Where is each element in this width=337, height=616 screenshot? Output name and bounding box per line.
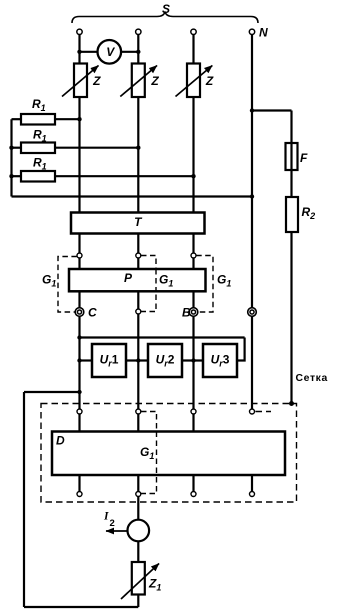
wire D2 bottom stub bbox=[137, 475, 139, 492]
wire col3 B down bbox=[192, 316, 194, 409]
wire col3 Z to T bbox=[192, 97, 194, 213]
wire D1 stub bbox=[78, 414, 80, 432]
resistor R1 c bbox=[21, 171, 55, 182]
wire R1c left bbox=[12, 175, 22, 177]
wire col2 P to circle bbox=[137, 291, 139, 309]
svg-text:Z: Z bbox=[150, 74, 159, 88]
terminal col2 mid bbox=[136, 253, 141, 258]
impedance Z col2 bbox=[132, 64, 145, 98]
svg-text:Z: Z bbox=[92, 74, 101, 88]
wire bypass bottom bbox=[24, 606, 138, 608]
wire Ur2 to Ur3 bbox=[182, 359, 203, 361]
wire Ur mid col1 bbox=[80, 359, 93, 361]
wire D4 bottom stub bbox=[251, 475, 253, 492]
terminal col2 top bbox=[136, 29, 141, 34]
svg-text:G1: G1 bbox=[42, 273, 56, 289]
wire col2 down bbox=[137, 314, 139, 409]
svg-text:Z: Z bbox=[205, 74, 214, 88]
wire V right bbox=[121, 51, 138, 53]
node bypass col1 bbox=[77, 390, 81, 394]
wire col3 circle to P bbox=[192, 258, 194, 269]
wire col1 Z to T bbox=[78, 97, 80, 213]
wire R1b right bbox=[55, 147, 138, 149]
arrow Z col3 bbox=[176, 66, 213, 97]
wire ammeter to Z1 bbox=[137, 541, 139, 562]
svg-text:Ur2: Ur2 bbox=[156, 353, 175, 369]
wire V left bbox=[80, 51, 98, 53]
wire col2 to ammeter bbox=[137, 497, 139, 520]
terminal D3 top bbox=[191, 409, 196, 414]
node rail c bbox=[9, 174, 13, 178]
svg-text:N: N bbox=[259, 25, 268, 39]
wire F branch down bbox=[290, 111, 292, 144]
wire col1 C down bbox=[78, 316, 80, 409]
wire col1 T to circle bbox=[78, 234, 80, 254]
wire col3 terminal to Z bbox=[192, 35, 194, 64]
terminal D3 bottom bbox=[191, 492, 196, 497]
wire Ur1 to Ur2 bbox=[126, 359, 148, 361]
wire Ur top link bbox=[80, 336, 245, 338]
wire left rail bbox=[10, 119, 12, 196]
terminal col4 outer bbox=[248, 308, 257, 317]
arrow Z1 bbox=[121, 564, 159, 600]
svg-text:Сетка: Сетка bbox=[296, 373, 328, 384]
node bottom col4 bbox=[250, 194, 254, 198]
svg-text:B: B bbox=[182, 306, 191, 320]
arrow Z col1 bbox=[62, 66, 99, 97]
terminal col1 mid bbox=[77, 253, 82, 258]
impedance Z col1 bbox=[74, 64, 87, 98]
link G1 a dashed bbox=[58, 257, 77, 313]
box Ur1 bbox=[92, 344, 126, 377]
voltmeter U1 bbox=[98, 40, 122, 64]
wire R2 down to grid bbox=[290, 232, 292, 403]
box Ur3 bbox=[203, 344, 237, 377]
wire F to R2 bbox=[290, 170, 292, 197]
wire R1c right bbox=[55, 175, 194, 177]
svg-text:S: S bbox=[162, 2, 170, 16]
wire R1a left bbox=[12, 118, 22, 120]
terminal col4 inner bbox=[250, 310, 254, 314]
terminal col2 small bbox=[136, 309, 141, 314]
node R1c col3 bbox=[191, 174, 195, 178]
wire Ur bend bbox=[237, 338, 245, 361]
svg-text:G1: G1 bbox=[217, 273, 231, 289]
wire G1b over P bbox=[155, 269, 157, 291]
terminal D2 bottom bbox=[136, 492, 141, 497]
terminal B inner bbox=[191, 310, 195, 314]
fuse F bbox=[286, 143, 298, 170]
wire R1a right bbox=[55, 118, 80, 120]
wire col3 P to B bbox=[192, 291, 194, 307]
wire F branch horizontal bbox=[252, 109, 292, 111]
terminal N top bbox=[249, 29, 254, 34]
node V left bbox=[77, 50, 81, 54]
svg-text:C: C bbox=[88, 306, 97, 320]
link G1 c dashed bbox=[196, 256, 213, 313]
wire R1b left bbox=[12, 147, 22, 149]
terminal C inner bbox=[77, 310, 81, 314]
wire col1 terminal to Z bbox=[78, 35, 80, 64]
terminal col3 mid bbox=[191, 253, 196, 258]
wire bypass horizontal bbox=[24, 391, 80, 393]
wire stub mains dashed bbox=[256, 411, 272, 413]
wire col2 Z to T bbox=[137, 97, 139, 213]
node R1a col1 bbox=[77, 117, 81, 121]
terminal D1 top bbox=[77, 409, 82, 414]
wire D2 stub bbox=[137, 414, 139, 432]
wire D3 bottom stub bbox=[192, 475, 194, 492]
node grid bbox=[289, 401, 294, 406]
wire col4 down bbox=[251, 316, 253, 409]
svg-text:R2: R2 bbox=[302, 205, 316, 221]
svg-text:R1: R1 bbox=[32, 97, 46, 113]
device P box bbox=[69, 269, 206, 291]
node V right bbox=[136, 50, 140, 54]
node Ur mid col1 bbox=[77, 358, 81, 362]
resistor R1 b bbox=[21, 143, 55, 154]
node Ur top col1 bbox=[77, 335, 81, 339]
wire col2 circle to P bbox=[137, 258, 139, 269]
device D box bbox=[52, 432, 285, 476]
brace S bbox=[72, 12, 258, 24]
terminal col3 top bbox=[191, 29, 196, 34]
svg-text:Ur1: Ur1 bbox=[100, 353, 119, 369]
link G1 b dashed bbox=[141, 256, 156, 312]
svg-text:2: 2 bbox=[110, 518, 115, 529]
node R1b col2 bbox=[136, 146, 140, 150]
wire Z1 down bbox=[137, 595, 139, 608]
impedance Z1 bbox=[132, 562, 145, 595]
node Ur mid col2 bbox=[136, 358, 140, 362]
svg-text:Ur3: Ur3 bbox=[211, 353, 230, 369]
wire through fuse bbox=[290, 143, 292, 170]
svg-text:T: T bbox=[134, 215, 143, 229]
wire D3 stub bbox=[192, 414, 194, 432]
wire G1d over D bbox=[156, 432, 158, 476]
wire D1 bottom stub bbox=[78, 475, 80, 492]
box Ur2 bbox=[148, 344, 182, 377]
wire bypass rail bbox=[23, 392, 25, 607]
svg-text:R1: R1 bbox=[33, 128, 47, 144]
wire bottom R1 to col4 bbox=[12, 195, 253, 197]
terminal D4 bottom bbox=[250, 492, 255, 497]
wire col1 circle to P bbox=[78, 258, 80, 269]
svg-text:R1: R1 bbox=[33, 156, 47, 172]
wire col3 T to circle bbox=[192, 234, 194, 254]
node F branch bbox=[250, 108, 254, 112]
wire col4 N down bbox=[251, 35, 253, 308]
wire col2 terminal to Z bbox=[137, 35, 139, 64]
svg-text:V: V bbox=[106, 45, 115, 59]
terminal C outer bbox=[75, 308, 84, 317]
arrow Z col2 bbox=[120, 66, 157, 97]
svg-text:I: I bbox=[103, 511, 109, 523]
node Ur mid col3 bbox=[191, 358, 195, 362]
svg-text:Z1: Z1 bbox=[148, 576, 161, 592]
terminal col1 top bbox=[77, 29, 82, 34]
resistor R2 bbox=[286, 197, 298, 232]
impedance Z col3 bbox=[187, 64, 200, 98]
transformer T box bbox=[71, 213, 205, 234]
node rail b bbox=[9, 146, 13, 150]
wire col1 P to C bbox=[78, 291, 80, 307]
svg-text:P: P bbox=[124, 271, 133, 285]
terminal B outer bbox=[189, 308, 198, 317]
resistor R1 a bbox=[21, 114, 55, 125]
svg-text:F: F bbox=[300, 151, 308, 165]
link G1 d dashed bbox=[141, 412, 157, 494]
arrow I2 bbox=[106, 530, 127, 532]
terminal D1 bottom bbox=[77, 492, 82, 497]
svg-text:D: D bbox=[56, 434, 65, 448]
enclosure mains dashed bbox=[41, 404, 297, 503]
terminal D2 top bbox=[136, 409, 141, 414]
wire col2 T to circle bbox=[137, 234, 139, 254]
terminal D4 top bbox=[250, 409, 255, 414]
ammeter I2 circle bbox=[128, 520, 150, 542]
